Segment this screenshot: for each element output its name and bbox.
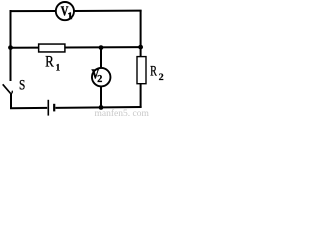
svg-text:R: R — [150, 63, 157, 79]
battery short plate — [53, 104, 55, 112]
wire switch lower segment — [10, 94, 12, 109]
wire V2 branch lower — [100, 87, 102, 108]
wire top-left horizontal (corner to V1) — [10, 10, 56, 12]
wire V2 branch upper — [100, 48, 102, 68]
svg-text:manfen5. com: manfen5. com — [95, 108, 150, 118]
resistor R2 — [137, 57, 146, 84]
wire right vertical lower (R2 to bottom corner) — [140, 84, 142, 108]
battery long plate — [47, 100, 49, 116]
switch S hook contact — [10, 91, 12, 95]
wire left vertical (corner to switch) — [10, 10, 12, 81]
svg-text:1: 1 — [68, 12, 73, 22]
switch S blade — [3, 84, 11, 93]
node junction bottom (V2 branch meets bottom wire) — [99, 105, 104, 110]
voltmeter V1 — [56, 2, 74, 22]
node junction middle (V2 branch tap) — [99, 45, 104, 50]
label R2 — [150, 63, 164, 83]
label R1 — [45, 53, 60, 73]
svg-text:S: S — [19, 76, 25, 93]
svg-text:R: R — [45, 53, 54, 70]
wire bottom right (battery to corner) — [55, 106, 141, 109]
wire V1 to top-right corner — [74, 10, 141, 12]
resistor R1 — [39, 44, 65, 52]
voltmeter V2 — [92, 66, 111, 86]
wire R1 row right segment — [65, 46, 141, 48]
wire bottom left (corner to battery) — [10, 107, 47, 109]
svg-text:1: 1 — [56, 63, 61, 73]
svg-text:2: 2 — [159, 73, 164, 84]
svg-text:2: 2 — [97, 74, 102, 85]
wire R1 row left segment — [11, 47, 40, 49]
wire right vertical upper (corner to R2) — [140, 10, 142, 56]
node junction left (R1 row meets left wire) — [8, 45, 13, 50]
node junction right (R1 row meets right wire) — [138, 45, 143, 50]
